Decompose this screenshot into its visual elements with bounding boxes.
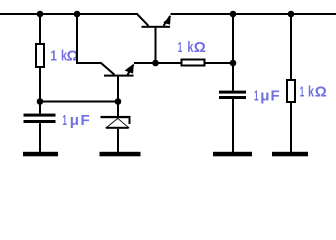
svg-text:1: 1	[62, 112, 67, 129]
transistor Q2	[101, 63, 134, 77]
svg-text:k: k	[308, 84, 314, 101]
node: junction dot Q1-base/R2	[152, 60, 159, 67]
wire: R3 top lead	[290, 15, 292, 79]
node: junction dot R2/C2-branch	[230, 60, 237, 67]
wire: D1 cathode lead	[117, 103, 119, 117]
label: C2 value 1μF	[254, 88, 280, 105]
wire: R1 bottom lead	[39, 68, 41, 101]
wire: C2 ground lead	[232, 99, 234, 152]
svg-text:1: 1	[254, 88, 259, 105]
wire: C1 top lead	[39, 103, 41, 114]
resistor R2	[182, 60, 205, 66]
node: junction dot rail/Q2-branch	[74, 11, 81, 18]
resistor R3	[287, 80, 295, 102]
wire: Q2 emitter to R2	[134, 62, 181, 64]
svg-text:F: F	[81, 112, 90, 129]
svg-text:μ: μ	[260, 88, 269, 105]
zener diode D1	[101, 116, 131, 129]
node: junction dot D1/Q2-base	[115, 98, 122, 105]
capacitor C2	[219, 91, 246, 99]
ground: below C1	[23, 152, 58, 157]
label: C1 value 1μF	[62, 112, 89, 129]
wire: D1 anode lead	[117, 129, 119, 152]
resistor R1	[36, 44, 44, 67]
svg-text:Ω: Ω	[194, 39, 206, 56]
svg-text:Ω: Ω	[315, 84, 327, 101]
capacitor C1	[24, 114, 56, 123]
ground: below C2	[213, 152, 252, 157]
ground: below D1	[100, 152, 141, 157]
transistor Q1	[138, 15, 171, 28]
label: R3 value 1kΩ	[300, 84, 327, 101]
wire: Q1 base lead	[155, 28, 157, 63]
svg-text:1: 1	[50, 47, 57, 64]
label: R2 value 1kΩ	[178, 39, 206, 56]
label: R1 value 1kΩ	[50, 47, 78, 64]
svg-text:F: F	[271, 88, 280, 105]
node: junction dot rail/R3	[288, 11, 295, 18]
svg-text:μ: μ	[70, 112, 79, 129]
svg-text:1: 1	[178, 39, 183, 56]
wire: node B horizontal (C1 to D1)	[40, 101, 119, 103]
wire: output branch vertical (rail to C2)	[232, 15, 234, 91]
wire: top rail right (output)	[171, 13, 336, 15]
wire: R2 to output branch	[206, 62, 235, 64]
wire: Q2 collector horizontal	[76, 62, 102, 64]
wire: Q2 branch vertical from rail	[76, 15, 78, 63]
node: junction dot rail/R1	[37, 11, 44, 18]
wire: Q2 base lead	[117, 77, 119, 101]
wire: R3 ground lead	[290, 103, 292, 152]
wire: C1 ground lead	[39, 123, 41, 152]
svg-text:1: 1	[300, 84, 305, 101]
ground: below R3	[272, 152, 308, 157]
wire: R1 top lead	[39, 15, 41, 44]
node: junction dot rail/C2-branch	[230, 11, 237, 18]
node: junction dot R1/C1	[37, 98, 44, 105]
wire: top rail left (input)	[0, 13, 138, 15]
